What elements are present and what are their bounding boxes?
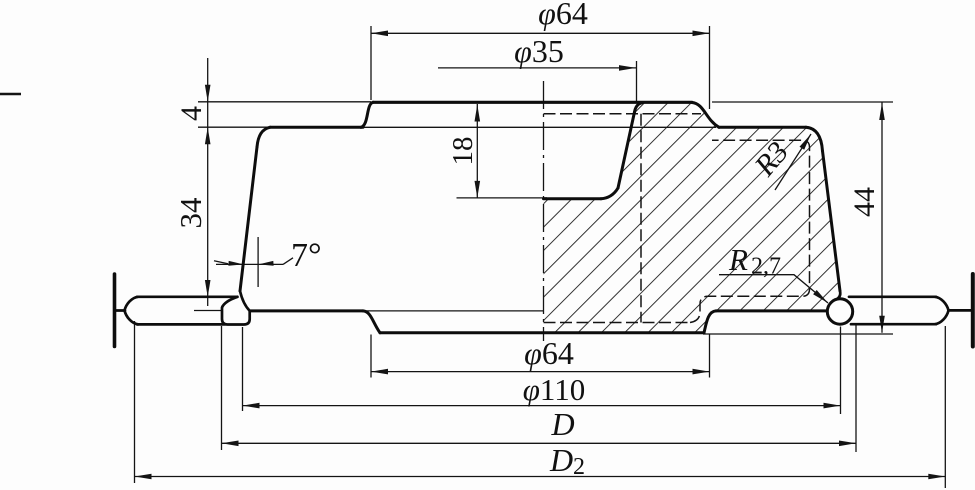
- left fin top: [137, 295, 237, 298]
- arrows D2: [135, 474, 152, 480]
- flange top right: [719, 126, 806, 129]
- dim line D: [222, 442, 857, 444]
- arrows dim 44: [879, 103, 885, 120]
- 7deg arc line: [216, 263, 283, 265]
- arrows phi110: [243, 403, 260, 409]
- ext lines bottom phi64: [370, 335, 372, 378]
- dim line D2: [135, 476, 946, 478]
- svg-text:44: 44: [848, 187, 881, 217]
- ext lines for top phi64: [370, 26, 372, 100]
- ext lines D: [221, 326, 223, 450]
- arrow R2,7: [813, 290, 828, 303]
- flange top left: [270, 126, 363, 129]
- 7deg reference vertical: [257, 237, 259, 287]
- parting line stub left: [194, 310, 222, 312]
- right fin bottom: [851, 323, 936, 326]
- dashed machined hub bottom: [544, 322, 691, 324]
- recess wall fillet: [601, 188, 618, 199]
- svg-text:7°: 7°: [291, 237, 322, 274]
- svg-text:34: 34: [173, 197, 208, 229]
- leader R3: [775, 134, 811, 190]
- boss top surface: [373, 101, 692, 104]
- left hook from drafted edge into bead: [240, 291, 250, 311]
- arrows phi64 bottom: [371, 369, 388, 375]
- svg-text:φ110: φ110: [523, 372, 586, 407]
- recess lip fillet: [635, 103, 644, 113]
- svg-text:18: 18: [447, 137, 479, 166]
- left drafted edge (7 deg): [240, 147, 257, 291]
- svg-text:4: 4: [175, 106, 208, 121]
- dashed machined top face: [544, 113, 702, 115]
- ext lines for dim 44: [712, 101, 893, 103]
- thin projected flange-top line under boss: [363, 126, 716, 128]
- flange bottom right: [716, 309, 827, 312]
- ext lines phi110: [242, 327, 244, 411]
- right trim bar: [971, 274, 975, 347]
- arrow dim 34 bottom: [205, 280, 211, 297]
- ext line for phi35: [636, 61, 638, 103]
- recess bottom: [544, 197, 602, 200]
- svg-text:D: D: [549, 442, 573, 478]
- arrows phi64 top: [371, 31, 388, 37]
- dim line 4 / 34 shared vertical: [207, 58, 209, 306]
- right fin top: [849, 295, 936, 298]
- stray segment at left edge: [0, 93, 21, 95]
- svg-text:R: R: [728, 242, 748, 277]
- svg-text:2,7: 2,7: [751, 254, 781, 280]
- left trim bar: [113, 274, 117, 347]
- leader R2,7: [719, 275, 828, 303]
- left fin bottom: [137, 323, 225, 326]
- arrows D: [222, 441, 239, 447]
- arrow R3: [800, 134, 812, 150]
- right gutter lens end: [935, 297, 949, 324]
- dashed machined step corner: [690, 140, 810, 322]
- hatched forging cross-section (right half): [544, 103, 841, 333]
- R3 fillet top-right: [806, 127, 823, 151]
- arrow phi35: [619, 65, 636, 71]
- left bottom step S-curve: [363, 311, 380, 333]
- right hook (R2.7) from drafted edge: [835, 291, 841, 301]
- left flash stub: [116, 309, 125, 312]
- right flash stub: [949, 309, 972, 312]
- ext line for dim 18: [457, 197, 548, 199]
- svg-text:φ35: φ35: [514, 33, 564, 69]
- boss left shoulder S-curve: [361, 102, 373, 127]
- arrows dim 4 (outside): [205, 85, 211, 102]
- dim line phi110: [243, 405, 841, 407]
- svg-text:φ64: φ64: [538, 0, 588, 31]
- ext lines for dim 4: [198, 101, 371, 103]
- ext lines D2: [134, 321, 136, 483]
- svg-text:2: 2: [573, 454, 585, 480]
- right drafted edge: [823, 151, 841, 291]
- thin projected flange-bottom line (left half): [365, 310, 544, 312]
- dim line phi35: [438, 67, 636, 69]
- dim line 44: [881, 103, 883, 333]
- svg-text:φ64: φ64: [524, 335, 574, 371]
- bottom face of lower boss: [380, 331, 704, 334]
- boss right shoulder S-curve: [692, 103, 719, 128]
- recess drafted wall: [618, 112, 635, 188]
- arrows 7deg: [228, 261, 243, 266]
- flange top-left corner fillet: [257, 127, 270, 147]
- dim line phi64 top: [371, 32, 710, 34]
- vertical centerline (axis): [543, 81, 545, 341]
- left gutter lens: [125, 297, 139, 325]
- svg-text:D: D: [550, 406, 574, 442]
- dim line 18: [476, 104, 478, 198]
- arrows dim 18: [475, 105, 481, 122]
- flange bottom left: [251, 309, 364, 312]
- right bead circle: [827, 299, 852, 324]
- dashed machined hole wall phi35: [640, 114, 642, 323]
- left bead (flash neck): [222, 297, 250, 325]
- dim line phi64 bottom: [371, 371, 710, 373]
- right bottom step S-curve: [704, 311, 716, 333]
